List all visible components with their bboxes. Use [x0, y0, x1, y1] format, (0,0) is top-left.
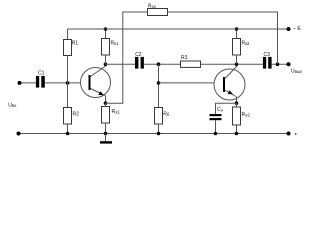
wire node to R2 top [67, 83, 69, 108]
wire emitter node to Re2 [236, 103, 238, 106]
node Rb ground [157, 132, 161, 136]
wire Re2 to ground [236, 125, 238, 134]
ground [105, 134, 107, 142]
svg-text:Rк2: Rк2 [242, 41, 251, 47]
svg-text:R2: R2 [73, 112, 80, 118]
wire R3 to collector node Q2 [201, 63, 263, 65]
wire R2 bottom to ground rail [67, 124, 69, 134]
svg-text:Uвых: Uвых [291, 69, 303, 75]
ground terminal right [287, 132, 291, 136]
wire Ce to ground [215, 120, 217, 133]
node Rk1 supply [104, 27, 108, 31]
svg-text:Rос: Rос [148, 4, 157, 10]
wire C1 to divider node [45, 82, 81, 84]
wire collector node to C2 [106, 63, 136, 65]
svg-text:Rэ2: Rэ2 [242, 112, 251, 118]
resistor Re2 [233, 107, 251, 125]
capacitor C3 [263, 52, 272, 69]
wire emitter node to Ce [216, 103, 237, 114]
wire Re1 to ground rail [105, 123, 107, 134]
wire Rb to ground [158, 124, 160, 134]
wire C3 to output terminal [272, 63, 289, 65]
ground terminal left [17, 132, 21, 136]
wire Rk1 to collector node [105, 55, 107, 64]
node Rk2 supply [235, 27, 239, 31]
svg-text:Cэ: Cэ [217, 107, 224, 113]
node R2 ground [66, 132, 70, 136]
input terminal [18, 81, 22, 85]
resistor R2 [64, 108, 80, 125]
node C2 out [157, 62, 161, 66]
capacitor C1 [36, 71, 45, 88]
wire R1 top to supply rail corner [67, 29, 69, 40]
resistor Rk1 [102, 39, 120, 56]
node collector Q2 [235, 62, 239, 66]
resistor Rb [155, 108, 170, 125]
wire base node to Q2 [159, 82, 215, 84]
resistor Re1 [102, 107, 121, 124]
svg-text:R1: R1 [72, 41, 79, 47]
node Ce ground [214, 132, 218, 136]
resistor R1 [64, 40, 79, 56]
node divider base [66, 81, 70, 85]
resistor Roc [148, 4, 168, 16]
wire node down to Rb [158, 64, 160, 107]
transistor Q1 [81, 66, 111, 103]
stray dot artifact [295, 133, 297, 135]
wire emitter node to Re1 [105, 103, 107, 106]
wire collector Q1 up to node [105, 64, 107, 66]
resistor Rk2 [233, 39, 251, 56]
svg-text:R3: R3 [181, 55, 188, 61]
feedback wire to output node [168, 12, 278, 64]
node collector Q1 [104, 62, 108, 66]
wire supply to Rk2 [236, 29, 238, 39]
resistor R3 [181, 55, 201, 67]
wire supply rail to Rk1 [105, 29, 107, 39]
node Re2 ground [235, 132, 239, 136]
bottom rail [18, 133, 289, 135]
wire Rk2 to collector node [236, 55, 238, 64]
svg-text:– E: – E [293, 26, 301, 32]
wire R1 bottom to node [67, 56, 69, 83]
svg-text:Rк1: Rк1 [111, 41, 120, 47]
feedback wire from emitter Q1 up [106, 12, 148, 103]
node base Q2 [157, 81, 161, 85]
wire input to C1 [19, 82, 36, 84]
svg-text:C1: C1 [38, 71, 45, 77]
wire C2 to R3 [144, 63, 181, 65]
transistor Q2 [214, 67, 245, 104]
svg-text:Rэ1: Rэ1 [112, 109, 121, 115]
capacitor C2 [135, 52, 144, 68]
capacitor Ce [210, 107, 224, 120]
supply terminal [287, 27, 291, 31]
wire collector Q2 to node [236, 64, 238, 66]
output terminal [287, 62, 291, 66]
svg-text:Rб: Rб [163, 112, 170, 118]
svg-text:C3: C3 [264, 52, 271, 58]
node Re1 ground [104, 132, 108, 136]
supply rail [68, 28, 289, 30]
svg-text:Uвх: Uвх [8, 102, 17, 108]
node output junction [276, 62, 280, 66]
node emitter Q2 [235, 101, 239, 105]
svg-text:C2: C2 [135, 52, 142, 58]
node emitter Q1 [104, 101, 108, 105]
